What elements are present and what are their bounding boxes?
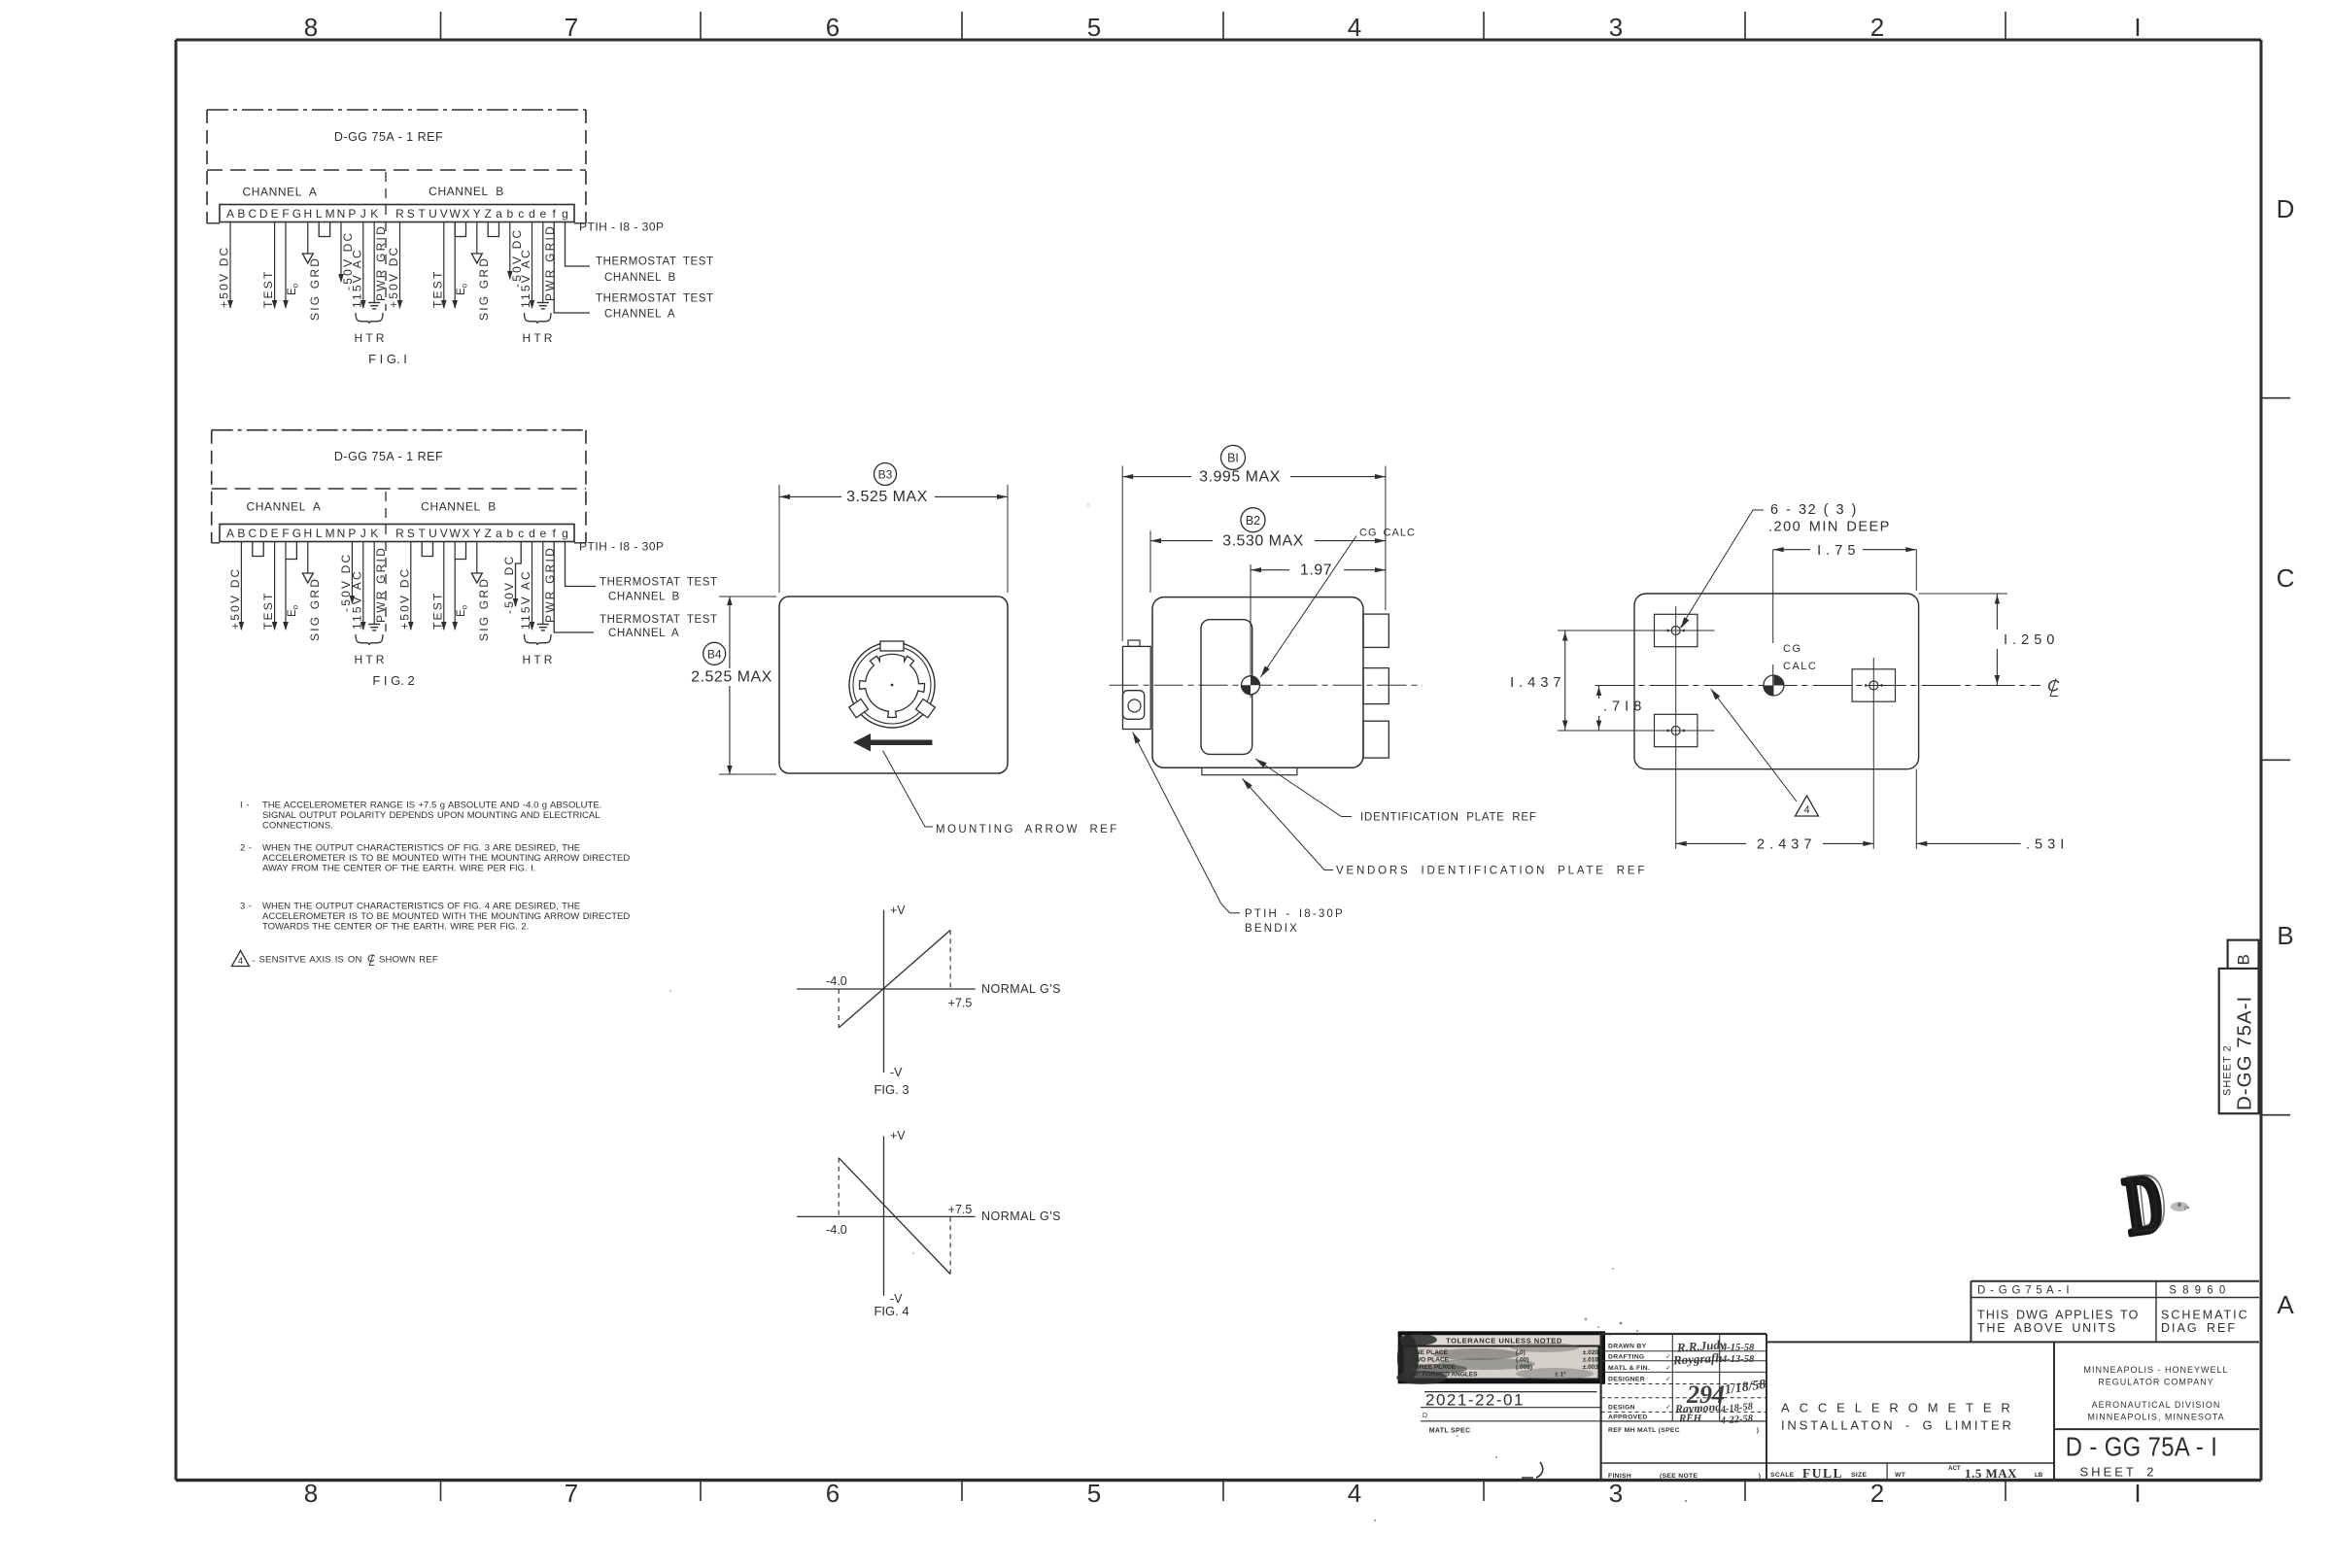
svg-text:DRAWN BY: DRAWN BY bbox=[1608, 1344, 1647, 1350]
svg-text:VENDORS IDENTIFICATION PLATE R: VENDORS IDENTIFICATION PLATE REF bbox=[1336, 866, 1647, 877]
svg-text:R: R bbox=[395, 207, 404, 221]
svg-text:DRAFTING: DRAFTING bbox=[1608, 1354, 1645, 1361]
svg-text:c: c bbox=[518, 527, 524, 540]
svg-text:C: C bbox=[248, 207, 257, 221]
svg-text:5: 5 bbox=[1087, 13, 1101, 42]
svg-text:ACCELEROMETER IS TO BE MOU: ACCELEROMETER IS TO BE MOUNTED WITH THE … bbox=[262, 853, 630, 864]
svg-text:I . 4 3 7: I . 4 3 7 bbox=[1510, 675, 1561, 691]
svg-text:4: 4 bbox=[1348, 13, 1361, 42]
svg-text:THERMOSTAT TEST: THERMOSTAT TEST bbox=[596, 256, 714, 268]
svg-text:AWAY FROM THE CENTER OF T: AWAY FROM THE CENTER OF THE EARTH. WIRE … bbox=[262, 864, 535, 874]
note I bbox=[240, 801, 601, 832]
svg-text:Z: Z bbox=[485, 527, 492, 540]
svg-text:P: P bbox=[348, 207, 356, 221]
svg-text:G: G bbox=[292, 207, 301, 221]
svg-text:6: 6 bbox=[826, 13, 840, 42]
svg-text:✓: ✓ bbox=[1665, 1365, 1671, 1372]
wire pin W Eo (FIG.2) bbox=[454, 542, 456, 631]
svg-text:D-GG 75A - 1 REF: D-GG 75A - 1 REF bbox=[334, 130, 443, 144]
revision tag box D-GG 75A-1 SHEET 2 (rotated, right margin) bbox=[2219, 940, 2259, 1114]
svg-text:CHANNEL B: CHANNEL B bbox=[421, 500, 497, 514]
svg-text:K: K bbox=[370, 207, 378, 221]
svg-text:TOWARDS THE CENTER OF THE: TOWARDS THE CENTER OF THE EARTH. WIRE PE… bbox=[262, 922, 529, 933]
svg-text:D: D bbox=[2277, 194, 2295, 223]
svg-text:CHANNEL A: CHANNEL A bbox=[247, 500, 322, 514]
hole column line right bbox=[1872, 658, 1874, 849]
svg-text:SIZE: SIZE bbox=[1851, 1472, 1867, 1479]
side view horizontal centerline bbox=[1110, 684, 1423, 686]
brace HTR heater channel A (FIG.2) bbox=[356, 634, 383, 645]
leader 6-32 (3) .200 MIN DEEP bbox=[1681, 510, 1765, 628]
svg-text:6 - 32 ( 3 ): 6 - 32 ( 3 ) bbox=[1770, 502, 1858, 518]
svg-text:+50V DC: +50V DC bbox=[397, 567, 411, 630]
wire pin d 115V AC (FIG.2) bbox=[532, 542, 533, 631]
wire pin Y to SIG GRD (FIG.1) bbox=[476, 222, 478, 255]
ground symbol SIG GRD (FIG.2 ch B) bbox=[476, 572, 478, 575]
svg-text:B: B bbox=[237, 207, 245, 221]
svg-text:AERONAUTICAL DIVISION: AERONAUTICAL DIVISION bbox=[2092, 1400, 2221, 1410]
svg-text:MATL SPEC: MATL SPEC bbox=[1429, 1428, 1471, 1435]
leader identification plate ref bbox=[1255, 759, 1352, 817]
svg-text:4: 4 bbox=[1803, 804, 1809, 816]
svg-text:G: G bbox=[292, 527, 301, 540]
svg-text:± 1°: ± 1° bbox=[1555, 1371, 1566, 1379]
balloon B3 bbox=[874, 463, 897, 486]
svg-text:THE ABOVE UNITS: THE ABOVE UNITS bbox=[1977, 1321, 2117, 1335]
svg-text:DIAG REF: DIAG REF bbox=[2161, 1321, 2237, 1335]
svg-text:3.525 MAX: 3.525 MAX bbox=[846, 489, 928, 505]
svg-text:DESIGN: DESIGN bbox=[1608, 1405, 1635, 1412]
connector shell front (PTIH receptacle) bbox=[849, 641, 936, 728]
svg-text:NORMAL G'S: NORMAL G'S bbox=[981, 1210, 1061, 1223]
svg-text:e: e bbox=[539, 207, 546, 221]
wire jumper W-X (FIG.2) bbox=[455, 542, 465, 560]
svg-text:APPROVED: APPROVED bbox=[1608, 1415, 1648, 1421]
svg-text:LB: LB bbox=[2035, 1472, 2043, 1479]
note 4 flag triangle bbox=[232, 951, 250, 967]
CG symbol (side view) bbox=[1242, 676, 1260, 695]
connector PTIH-18-30P body (FIG.2) bbox=[220, 525, 574, 542]
side view bottom vendors plate bbox=[1202, 767, 1297, 774]
svg-text:D-GG 75A - 1 REF: D-GG 75A - 1 REF bbox=[334, 450, 443, 463]
title block: part number 2021-22-01 section bbox=[1421, 1391, 1601, 1435]
channel divider dashed line (FIG.1) bbox=[385, 172, 387, 311]
svg-text:BENDIX: BENDIX bbox=[1245, 923, 1299, 935]
svg-text:B3: B3 bbox=[878, 468, 893, 482]
svg-text:f: f bbox=[553, 527, 557, 540]
svg-text:-4.0: -4.0 bbox=[826, 1223, 847, 1237]
svg-text:F I G. I: F I G. I bbox=[368, 352, 407, 366]
svg-text:K: K bbox=[370, 527, 378, 540]
svg-text:PTIH - I8 - 30P: PTIH - I8 - 30P bbox=[579, 221, 665, 234]
front view: accelerometer body outline bbox=[779, 597, 1008, 773]
CG vertical extension line bbox=[1772, 550, 1774, 643]
svg-text:SIG GRD: SIG GRD bbox=[308, 577, 322, 641]
svg-text:B: B bbox=[2235, 953, 2253, 966]
svg-text:X: X bbox=[462, 527, 469, 540]
wire jumper Z-a (FIG.1) bbox=[488, 222, 498, 237]
svg-text:2: 2 bbox=[1870, 1479, 1884, 1508]
svg-text:J: J bbox=[360, 207, 366, 221]
svg-text:H T R: H T R bbox=[523, 653, 553, 666]
dimension 1.250 bbox=[1919, 594, 2055, 686]
svg-text:T: T bbox=[419, 527, 427, 540]
svg-text:±.003: ±.003 bbox=[1583, 1364, 1599, 1371]
svg-text:4: 4 bbox=[1348, 1479, 1361, 1508]
svg-text:THERMOSTAT TEST: THERMOSTAT TEST bbox=[600, 577, 718, 589]
svg-text:(.00): (.00) bbox=[1516, 1357, 1528, 1364]
svg-text:(SEE NOTE: (SEE NOTE bbox=[1660, 1473, 1698, 1480]
svg-text:+V: +V bbox=[890, 1129, 906, 1142]
svg-text:CHANNEL A: CHANNEL A bbox=[243, 186, 318, 199]
svg-text:-4.0: -4.0 bbox=[826, 974, 847, 988]
brace HTR heater channel B (FIG.2) bbox=[525, 634, 552, 645]
svg-text:8: 8 bbox=[304, 13, 318, 42]
svg-text:115V AC: 115V AC bbox=[519, 248, 532, 308]
svg-text:+50V DC: +50V DC bbox=[228, 567, 242, 630]
svg-text:1.5 MAX: 1.5 MAX bbox=[1965, 1466, 2017, 1481]
svg-text:WHEN THE OUTPUT CHARACTERIS: WHEN THE OUTPUT CHARACTERISTICS OF FIG. … bbox=[262, 843, 580, 854]
svg-text:B2: B2 bbox=[1246, 514, 1260, 528]
svg-text:3.530 MAX: 3.530 MAX bbox=[1222, 533, 1304, 550]
svg-text:Y: Y bbox=[473, 527, 481, 540]
FIG.4 transfer line bbox=[839, 1158, 950, 1275]
dimension .531 bbox=[1916, 769, 2064, 853]
title block: drawn-by table labels bbox=[1608, 1344, 1761, 1481]
svg-text:1/18/58: 1/18/58 bbox=[1724, 1378, 1766, 1398]
svg-text:MINNEAPOLIS, MINNESOTA: MINNEAPOLIS, MINNESOTA bbox=[2087, 1413, 2224, 1422]
svg-text:8: 8 bbox=[304, 1479, 318, 1508]
mounting arrow (thick) bbox=[853, 733, 932, 752]
svg-text:7: 7 bbox=[565, 13, 578, 42]
svg-text:L: L bbox=[316, 207, 323, 221]
dimension B3 3.525 MAX bbox=[779, 485, 1008, 593]
svg-text:ACCELEROMETER: ACCELEROMETER bbox=[1781, 1401, 2020, 1415]
stamp letter D (hand stamped) bbox=[2118, 1155, 2188, 1253]
svg-text:PWR GRID: PWR GRID bbox=[374, 546, 388, 623]
svg-text:✓: ✓ bbox=[1665, 1354, 1671, 1361]
wire jumper C-D (FIG.2) bbox=[253, 542, 263, 557]
svg-text:N: N bbox=[337, 207, 346, 221]
svg-text:I . 7 5: I . 7 5 bbox=[1817, 543, 1856, 559]
CG symbol (mounting pattern) bbox=[1764, 675, 1784, 696]
svg-text:CONNECTIONS.: CONNECTIONS. bbox=[262, 821, 333, 832]
svg-text:H: H bbox=[303, 527, 312, 540]
ground symbol SIG GRD (FIG.1 ch A) bbox=[307, 253, 309, 256]
power grid symbol (FIG.2 ch B) bbox=[537, 624, 549, 626]
svg-text:H: H bbox=[303, 207, 312, 221]
brace HTR heater channel A (FIG.1) bbox=[356, 313, 383, 324]
wire pin g thermostat test channel B (FIG.2) bbox=[566, 542, 597, 587]
wire pin d 115V AC (FIG.1) bbox=[532, 222, 533, 309]
svg-text:TEST: TEST bbox=[261, 592, 275, 630]
side view connector bracket (PTIH-18-30P Bendix) bbox=[1123, 640, 1151, 730]
svg-text:2.525 MAX: 2.525 MAX bbox=[691, 669, 772, 686]
svg-text:TEST: TEST bbox=[430, 592, 444, 630]
svg-text:g: g bbox=[562, 527, 568, 540]
hole crosshair horizontals bbox=[1558, 630, 1715, 631]
svg-text:I: I bbox=[2134, 1479, 2141, 1508]
svg-text:IDENTIFICATION PLATE REF: IDENTIFICATION PLATE REF bbox=[1360, 812, 1537, 824]
svg-text:1.97: 1.97 bbox=[1300, 562, 1332, 579]
svg-text:ACT: ACT bbox=[1948, 1465, 1961, 1472]
svg-text:(.0): (.0) bbox=[1516, 1349, 1526, 1356]
wire pin K PWR GRID (FIG.1) bbox=[373, 222, 375, 303]
svg-text:E: E bbox=[271, 527, 279, 540]
svg-text:V: V bbox=[440, 207, 448, 221]
dimension 1.437 bbox=[1510, 631, 1567, 731]
wire pin e PWR GRID (FIG.1) bbox=[542, 222, 544, 303]
svg-text:C: C bbox=[2277, 563, 2295, 593]
wire pin B +50V DC (FIG.2) bbox=[240, 542, 242, 631]
svg-text:+7.5: +7.5 bbox=[948, 997, 973, 1010]
svg-text:REH: REH bbox=[1678, 1413, 1702, 1424]
FIG.3 transfer line bbox=[839, 930, 950, 1028]
balloon B4 bbox=[703, 642, 726, 665]
svg-text:H T R: H T R bbox=[355, 653, 385, 666]
wire pin c -50V DC with jog (FIG.2) bbox=[516, 542, 522, 607]
svg-text:D-GG 75A-I: D-GG 75A-I bbox=[2234, 996, 2256, 1110]
svg-text:U: U bbox=[429, 527, 437, 540]
svg-text:TOLERANCE UNLESS NOTED: TOLERANCE UNLESS NOTED bbox=[1446, 1337, 1562, 1346]
svg-text:CHANNEL B: CHANNEL B bbox=[604, 272, 676, 284]
svg-text:CG CALC: CG CALC bbox=[1359, 528, 1416, 539]
svg-text:SIGNAL OUTPUT POLARITY DEPE: SIGNAL OUTPUT POLARITY DEPENDS UPON MOUN… bbox=[262, 810, 600, 821]
title block: company name bbox=[2083, 1365, 2228, 1422]
svg-text:Z: Z bbox=[485, 207, 492, 221]
wire pin W Eo (FIG.1) bbox=[454, 222, 456, 309]
svg-text:A: A bbox=[226, 207, 234, 221]
svg-text:W: W bbox=[450, 527, 462, 540]
balloon B1 bbox=[1221, 445, 1246, 469]
svg-text:I: I bbox=[2134, 13, 2141, 42]
wire pin J 115V AC (FIG.2) bbox=[362, 542, 364, 631]
wire pin E TEST (FIG.2) bbox=[274, 542, 276, 631]
dimension 2.437 bbox=[1676, 837, 1874, 853]
svg-text:D: D bbox=[259, 207, 268, 221]
wire jumper T-U (FIG.2) bbox=[422, 542, 432, 557]
svg-text:M: M bbox=[326, 527, 335, 540]
title block: tolerance box (smudged) bbox=[1396, 1333, 1603, 1384]
svg-text:b: b bbox=[506, 527, 513, 540]
svg-text:J: J bbox=[360, 527, 366, 540]
leader CG CALC (side view) bbox=[1261, 536, 1357, 678]
dimension B4 2.525 MAX bbox=[691, 597, 776, 774]
svg-text:DESIGNER: DESIGNER bbox=[1608, 1377, 1645, 1383]
svg-text:H T R: H T R bbox=[355, 331, 385, 345]
svg-text:CG: CG bbox=[1783, 643, 1802, 655]
svg-text:3.995 MAX: 3.995 MAX bbox=[1199, 469, 1281, 486]
wire pin F Eo (FIG.2) bbox=[285, 542, 287, 631]
svg-text:CHANNEL A: CHANNEL A bbox=[608, 628, 679, 639]
svg-text:5: 5 bbox=[1087, 1479, 1101, 1508]
svg-text:A: A bbox=[2277, 1290, 2294, 1319]
connector PTIH-18-30P body (FIG.1) bbox=[220, 205, 574, 222]
svg-text:FULL: FULL bbox=[1802, 1466, 1843, 1481]
svg-text:4-15-58: 4-15-58 bbox=[1721, 1343, 1755, 1353]
wire pin H to SIG GRD (FIG.1) bbox=[307, 222, 309, 255]
svg-text:115V AC: 115V AC bbox=[519, 569, 532, 630]
svg-text:-: - bbox=[252, 956, 255, 967]
svg-text:d: d bbox=[529, 207, 535, 221]
svg-text:3 -: 3 - bbox=[240, 902, 253, 912]
svg-text:B: B bbox=[237, 527, 245, 540]
svg-text:-V: -V bbox=[890, 1066, 903, 1079]
power grid symbol (FIG.1 ch A) bbox=[368, 302, 380, 304]
svg-text:±.010: ±.010 bbox=[1583, 1357, 1599, 1364]
wire jumper F-G (FIG.2) bbox=[286, 542, 296, 560]
svg-text:E: E bbox=[271, 207, 279, 221]
hole column line left bbox=[1675, 606, 1677, 849]
svg-text:D - GG 75A - I: D - GG 75A - I bbox=[2066, 1431, 2218, 1462]
svg-text:FIG. 3: FIG. 3 bbox=[874, 1082, 909, 1097]
scan specks (noise) bbox=[669, 504, 2189, 1521]
side view vertical line through CG bbox=[1250, 564, 1252, 698]
ground symbol SIG GRD (FIG.1 ch B) bbox=[476, 253, 478, 256]
svg-text:✓: ✓ bbox=[1665, 1405, 1671, 1412]
svg-text:D - G G 7 5 A - I: D - G G 7 5 A - I bbox=[1977, 1285, 2070, 1297]
leader vendors identification plate ref bbox=[1243, 779, 1334, 870]
wire pin b -50V DC (FIG.1) bbox=[509, 222, 511, 280]
svg-text:a: a bbox=[496, 207, 502, 221]
svg-text:MINNEAPOLIS - HONEYWELL: MINNEAPOLIS - HONEYWELL bbox=[2083, 1365, 2228, 1375]
svg-text:SHEET 2: SHEET 2 bbox=[2222, 1044, 2234, 1096]
svg-text:NORMAL G'S: NORMAL G'S bbox=[981, 982, 1061, 996]
svg-text:CHANNEL B: CHANNEL B bbox=[608, 592, 680, 603]
svg-text:d: d bbox=[529, 527, 535, 540]
svg-text:115V AC: 115V AC bbox=[350, 248, 363, 308]
svg-text:A: A bbox=[226, 527, 234, 540]
svg-text:3: 3 bbox=[1609, 13, 1623, 42]
svg-text:(.008): (.008) bbox=[1516, 1364, 1532, 1371]
svg-text:THERMOSTAT TEST: THERMOSTAT TEST bbox=[600, 614, 718, 626]
wire pin N -50V DC (FIG.1) bbox=[340, 222, 342, 283]
svg-text:X: X bbox=[462, 207, 469, 221]
svg-text:REGULATOR COMPANY: REGULATOR COMPANY bbox=[2098, 1378, 2214, 1387]
svg-text:ACCELEROMETER IS TO BE MOU: ACCELEROMETER IS TO BE MOUNTED WITH THE … bbox=[262, 911, 630, 922]
svg-text:SENSITVE AXIS IS ON: SENSITVE AXIS IS ON bbox=[259, 955, 362, 966]
unit outline dash-dot box D-GG 75A-1 REF (FIG.1) bbox=[207, 110, 586, 223]
FIG.3 dashed projections bbox=[838, 989, 840, 1028]
svg-text:R: R bbox=[395, 527, 404, 540]
svg-text:BI: BI bbox=[1227, 452, 1239, 465]
svg-text:2: 2 bbox=[1870, 13, 1884, 42]
dimension B1 3.995 MAX bbox=[1122, 466, 1386, 642]
svg-text:a: a bbox=[496, 527, 502, 540]
wire pin K PWR GRID (FIG.2) bbox=[373, 542, 375, 625]
svg-text:WT: WT bbox=[1895, 1472, 1906, 1479]
svg-text:INSTALLATON - G LIMITER: INSTALLATON - G LIMITER bbox=[1781, 1418, 2014, 1433]
svg-text:+7.5: +7.5 bbox=[948, 1203, 973, 1216]
svg-text:SIG GRD: SIG GRD bbox=[477, 577, 491, 641]
wire pin J 115V AC (FIG.1) bbox=[362, 222, 364, 309]
mounting hole 6-32 top-left bbox=[1655, 614, 1698, 646]
svg-text:F: F bbox=[282, 207, 289, 221]
svg-text:c: c bbox=[518, 207, 524, 221]
wire pin A +50V DC (FIG.1) bbox=[229, 222, 231, 309]
svg-text:Roygrafh: Roygrafh bbox=[1672, 1350, 1723, 1368]
svg-text:F I G. 2: F I G. 2 bbox=[372, 673, 414, 688]
ground symbol SIG GRD (FIG.2 ch A) bbox=[307, 572, 309, 575]
wire jumper W-X (FIG.1) bbox=[455, 222, 465, 237]
svg-text:2 . 4 3 7: 2 . 4 3 7 bbox=[1757, 837, 1812, 853]
svg-text:ONE PLACE: ONE PLACE bbox=[1411, 1349, 1449, 1356]
svg-text:115V AC: 115V AC bbox=[350, 569, 363, 630]
balloon B2 bbox=[1241, 508, 1265, 532]
title block: applies-to box texts bbox=[1977, 1285, 2249, 1336]
flag note 4 triangle with leader bbox=[1711, 689, 1797, 801]
svg-text:B: B bbox=[2277, 921, 2293, 950]
svg-text:W: W bbox=[450, 207, 462, 221]
svg-text:S: S bbox=[407, 527, 415, 540]
svg-text:2021-22-01: 2021-22-01 bbox=[1425, 1391, 1525, 1410]
wire pin P -50V DC (FIG.2) bbox=[351, 542, 353, 604]
svg-text:TEST: TEST bbox=[261, 270, 275, 308]
brace HTR heater channel B (FIG.1) bbox=[525, 313, 552, 324]
title block: scale row bbox=[1770, 1465, 2043, 1481]
svg-text:): ) bbox=[1759, 1473, 1761, 1480]
svg-text:SHOWN REF: SHOWN REF bbox=[379, 955, 438, 966]
svg-text:r: r bbox=[2184, 1204, 2187, 1212]
svg-text:2 -: 2 - bbox=[240, 843, 253, 854]
svg-text:U: U bbox=[429, 207, 437, 221]
svg-text:V: V bbox=[440, 527, 448, 540]
side view: accelerometer body outline bbox=[1152, 597, 1363, 768]
svg-text:4-22-58: 4-22-58 bbox=[1719, 1414, 1754, 1426]
svg-text:THE ACCELEROMETER RANGE IS: THE ACCELEROMETER RANGE IS +7.5 g ABSOLU… bbox=[262, 801, 601, 811]
mounting hole 6-32 right bbox=[1852, 669, 1895, 701]
svg-text:TEST: TEST bbox=[430, 270, 444, 308]
wire pin H to SIG GRD (FIG.2) bbox=[307, 542, 309, 574]
svg-text:3: 3 bbox=[1609, 1479, 1623, 1508]
svg-text:FIG. 4: FIG. 4 bbox=[874, 1304, 909, 1318]
svg-text:-50V DC: -50V DC bbox=[502, 555, 516, 614]
wire pin V TEST (FIG.2) bbox=[443, 542, 445, 631]
wire pin R +50V DC (FIG.1) bbox=[399, 222, 401, 309]
svg-text:Eo: Eo bbox=[287, 283, 299, 295]
wire pin f thermostat test channel A (FIG.2) bbox=[554, 542, 594, 633]
svg-text:): ) bbox=[1757, 1427, 1759, 1434]
svg-text:Eo: Eo bbox=[456, 604, 468, 617]
wire pin F Eo (FIG.1) bbox=[285, 222, 287, 309]
svg-text:SIG GRD: SIG GRD bbox=[308, 256, 322, 321]
svg-text:P: P bbox=[348, 527, 356, 540]
svg-text:Eo: Eo bbox=[456, 283, 468, 295]
svg-text:THERMOSTAT TEST: THERMOSTAT TEST bbox=[596, 293, 714, 305]
wire pin g thermostat test channel B (FIG.1) bbox=[566, 222, 591, 267]
channel divider dashed line (FIG.2) bbox=[385, 492, 387, 631]
svg-text:Eo: Eo bbox=[287, 604, 299, 617]
svg-text:b: b bbox=[506, 207, 513, 221]
svg-text:4: 4 bbox=[238, 956, 243, 967]
wire pin Y to SIG GRD (FIG.2) bbox=[476, 542, 478, 574]
wire pin e PWR GRID (FIG.2) bbox=[542, 542, 544, 625]
svg-text:.200 MIN DEEP: .200 MIN DEEP bbox=[1768, 520, 1891, 535]
leader PTIH-18-30P Bendix bbox=[1133, 733, 1240, 913]
svg-text:B4: B4 bbox=[707, 647, 722, 661]
svg-text:. 7 I 8: . 7 I 8 bbox=[1603, 699, 1642, 715]
title block: big drawing number D-GG 75A-I bbox=[2066, 1431, 2218, 1462]
svg-text:SHEET 2: SHEET 2 bbox=[2080, 1465, 2157, 1480]
pin letters (FIG.2) bbox=[226, 527, 568, 540]
mounting hole 6-32 bottom-left bbox=[1655, 714, 1698, 746]
svg-text:I -: I - bbox=[240, 801, 250, 811]
centerline symbol CL bbox=[2047, 677, 2060, 697]
svg-text:D: D bbox=[1423, 1413, 1427, 1419]
svg-text:N: N bbox=[337, 527, 346, 540]
svg-text:MATL & FIN.: MATL & FIN. bbox=[1608, 1365, 1650, 1372]
svg-text:D: D bbox=[259, 527, 268, 540]
